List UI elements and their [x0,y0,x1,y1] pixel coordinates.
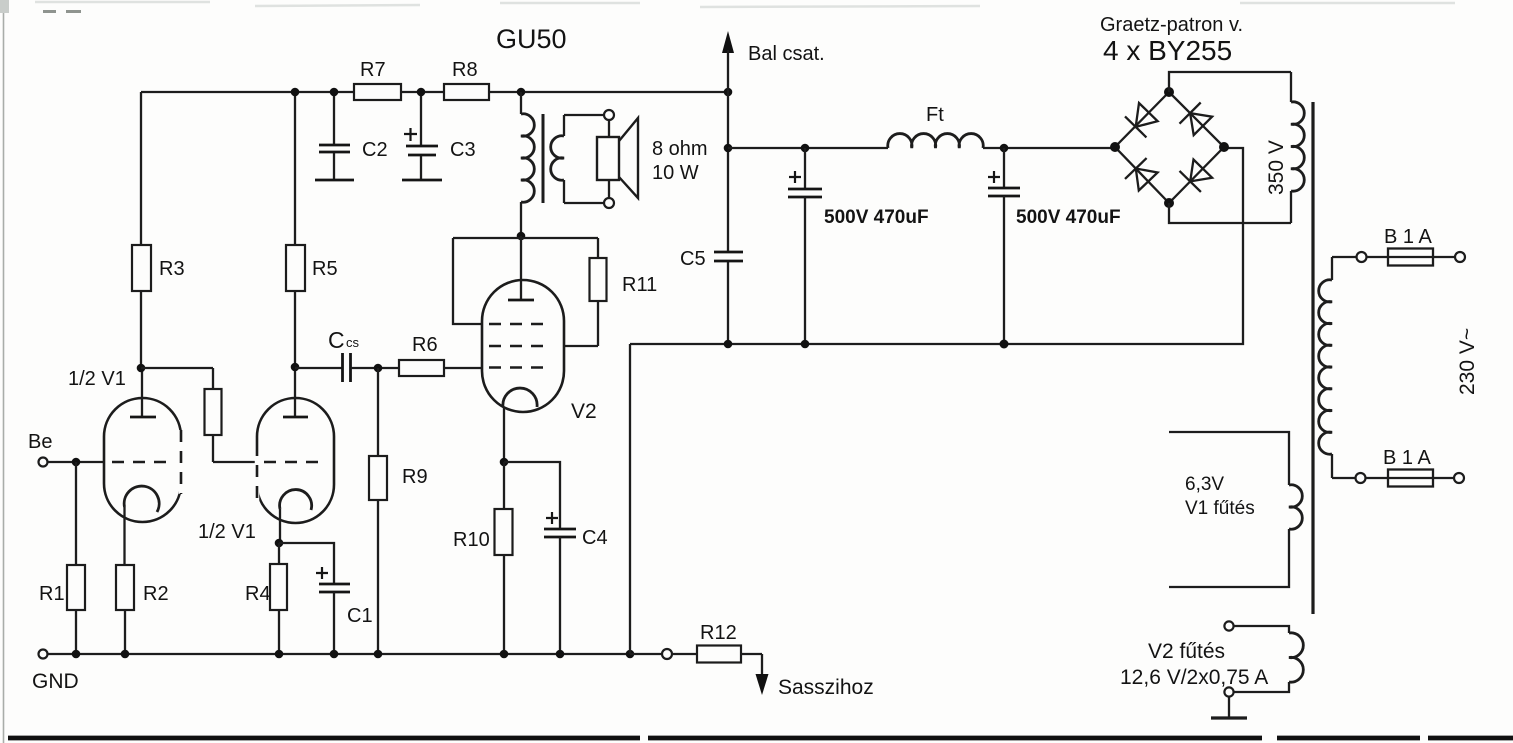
svg-text:V1 fűtés: V1 fűtés [1185,498,1255,519]
svg-text:R9: R9 [402,466,428,488]
node filter cap 1 top [801,144,810,153]
resistor R2 [116,565,169,654]
wire PSU return drop to audio gnd [629,344,631,654]
wire R3 column [140,92,142,368]
svg-text:Sasszihoz: Sasszihoz [778,676,874,699]
svg-text:C: C [328,327,345,353]
capacitor Ccs [295,327,399,382]
svg-text:8 ohm: 8 ohm [652,138,708,160]
svg-text:R8: R8 [452,59,478,81]
svg-text:B 1 A: B 1 A [1384,226,1432,248]
scan artifact top smudges [35,2,1455,7]
chassis arrow Sasszihoz [756,674,874,699]
terminal GND [32,650,79,694]
diode D1 (top-left) [1125,103,1158,137]
svg-text:cs: cs [346,335,360,350]
winding 6,3V heater [1169,432,1302,587]
wire ground to chassis terminal [630,653,662,655]
svg-text:Bal csat.: Bal csat. [748,43,825,65]
resistor R8 [444,59,489,100]
resistor R7 [354,59,401,100]
capacitor C3 [402,92,476,180]
svg-text:C3: C3 [450,139,476,161]
svg-text:R2: R2 [143,583,169,605]
svg-text:GND: GND [32,670,79,693]
capacitor 500V 470uF (second) [988,148,1121,344]
diode D3 (bottom-left) [1125,158,1158,190]
node V1b anode [291,363,300,372]
wire anode to coupling resistor [141,367,213,369]
wire R5 column [294,92,296,368]
resistor R10 [453,462,513,654]
bridge diamond [1115,92,1224,203]
fuse B 1 A (top) [1332,226,1465,266]
scan artifact left edge line [3,0,5,743]
wire ground rail [48,653,630,655]
terminal Be [28,431,52,467]
svg-text:V2: V2 [571,400,597,423]
svg-text:4 x BY255: 4 x BY255 [1103,35,1232,66]
node V2 cathode [500,458,509,467]
svg-text:500V 470uF: 500V 470uF [1016,207,1121,228]
svg-text:R12: R12 [700,622,737,644]
resistor interstage (unlabeled) [205,368,222,462]
fuse B 1 A (bottom) [1332,447,1464,487]
svg-text:R5: R5 [312,258,338,280]
diode D2 (top-right) [1180,103,1213,136]
svg-text:C4: C4 [582,527,608,549]
transformer T1 core [542,114,545,203]
resistor R1 [39,462,85,654]
ground symbol [1211,697,1247,718]
scan artifact bottom black bar [8,736,1513,741]
wire B+ top rail [141,91,728,93]
resistor R4 [245,543,287,654]
resistor R5 [286,245,338,291]
wire to V1b grid [213,461,257,463]
node dot B+ speaker [724,144,733,153]
pentode V2 [482,280,597,423]
svg-text:R3: R3 [159,258,185,280]
wire cathode to C4 [504,462,560,529]
node input dot [72,458,81,467]
terminal chassis [662,649,672,659]
svg-text:6,3V: 6,3V [1185,474,1224,495]
wire Bal csat vertical [727,50,729,344]
svg-text:Be: Be [28,431,52,453]
svg-text:R6: R6 [412,334,438,356]
node Ccs/R6/R9 [374,364,383,373]
svg-text:Graetz-patron v.: Graetz-patron v. [1100,14,1243,36]
svg-text:Ft: Ft [926,104,944,126]
node dots PSU return [724,340,1009,349]
svg-text:GU50: GU50 [496,24,567,54]
triode V1b [257,368,334,543]
node V1b cathode [275,539,284,548]
winding 350V [1265,72,1304,223]
triode V1a [104,368,181,565]
wire PSU return rail [630,148,1243,344]
svg-text:350 V: 350 V [1265,140,1288,195]
resistor R9 [369,368,428,654]
winding V2 heater [1120,621,1303,696]
transformer T1 secondary [551,115,604,203]
svg-text:R1: R1 [39,583,65,605]
node V2 anode junction [517,232,526,241]
node V1a anode [137,364,146,373]
svg-text:R4: R4 [245,583,271,605]
svg-text:C2: C2 [362,139,388,161]
svg-text:12,6 V/2x0,75 A: 12,6 V/2x0,75 A [1120,666,1268,689]
svg-text:V2 fűtés: V2 fűtés [1148,640,1225,663]
wire bridge top to 350V winding [1169,72,1291,92]
resistor R6 [399,334,482,376]
capacitor 500V 470uF (first) [788,148,929,344]
terminal speaker bottom [604,198,614,208]
svg-text:1/2 V1: 1/2 V1 [198,521,256,543]
winding 230V primary [1319,257,1332,478]
node dots bridge corners [1110,87,1229,208]
wire to chassis arrow [761,654,763,676]
capacitor C2 [315,92,388,180]
capacitor C5 [680,248,743,270]
wire cathode to C1 [279,543,334,584]
svg-text:500V 470uF: 500V 470uF [824,207,929,228]
capacitor C4 [544,512,608,654]
wire B+ rail to bridge [728,147,1115,149]
diode D4 (bottom-right) [1180,160,1213,192]
svg-text:C5: C5 [680,248,706,270]
resistor R11 [563,238,657,346]
node filter cap 2 top [1000,144,1009,153]
inductor Ft [888,104,983,148]
node dots on B+ rail [291,88,733,97]
wire anode net (left loop to g3, right to R11) [453,236,598,324]
wire bridge bottom to 350V winding [1169,203,1291,223]
svg-text:R10: R10 [453,529,490,551]
svg-text:R11: R11 [622,274,657,296]
wire V2 cathode [503,407,505,462]
transformer core [1311,102,1314,614]
svg-text:1/2 V1: 1/2 V1 [68,368,126,390]
node dots ground rail [72,650,635,659]
resistor R12 [672,622,762,663]
svg-text:R7: R7 [360,59,386,81]
speaker [597,118,708,198]
svg-text:230 V~: 230 V~ [1456,328,1479,395]
capacitor C1 [316,567,373,654]
svg-text:C1: C1 [347,605,373,627]
wire Be input to grid [48,461,104,463]
node Bal csat arrow [722,31,825,65]
terminal speaker top [604,110,614,120]
transformer T1 primary [521,92,534,236]
svg-text:B 1 A: B 1 A [1383,447,1431,469]
resistor R3 [132,245,185,291]
svg-text:10 W: 10 W [652,162,699,184]
